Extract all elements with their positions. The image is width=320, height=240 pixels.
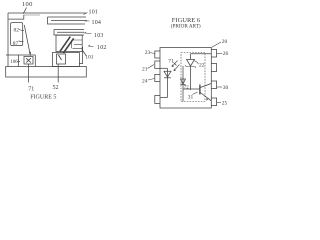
svg-text:101: 101: [85, 54, 94, 60]
svg-text:100: 100: [22, 1, 33, 8]
svg-text:71: 71: [28, 87, 34, 93]
svg-text:101: 101: [89, 9, 99, 15]
svg-text:104: 104: [92, 20, 102, 26]
svg-text:52: 52: [53, 85, 59, 91]
svg-text:103: 103: [94, 33, 104, 39]
svg-text:20: 20: [222, 39, 228, 45]
svg-text:82: 82: [14, 27, 20, 33]
svg-text:22: 22: [199, 62, 205, 68]
svg-text:FIGURE 5: FIGURE 5: [30, 94, 56, 100]
svg-text:26: 26: [223, 51, 229, 57]
svg-text:106: 106: [11, 60, 19, 65]
svg-text:23: 23: [145, 50, 151, 56]
svg-text:87: 87: [13, 41, 19, 47]
svg-text:30: 30: [223, 85, 229, 91]
svg-text:102: 102: [97, 45, 107, 51]
svg-text:25: 25: [222, 100, 228, 106]
svg-text:31: 31: [188, 94, 194, 100]
svg-text:72: 72: [184, 86, 189, 91]
svg-text:24: 24: [142, 79, 148, 85]
svg-text:71: 71: [168, 58, 174, 64]
svg-text:(PRIOR ART): (PRIOR ART): [171, 23, 201, 30]
svg-text:21: 21: [142, 67, 148, 73]
